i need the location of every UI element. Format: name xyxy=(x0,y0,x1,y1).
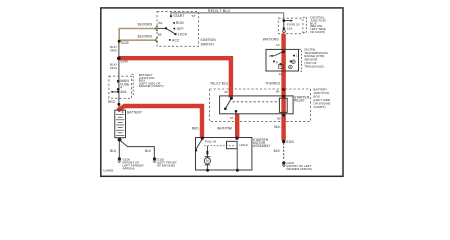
svg-text:S140: S140 xyxy=(120,59,128,63)
svg-text:85: 85 xyxy=(277,116,281,120)
svg-text:OF ENGINE): OF ENGINE) xyxy=(157,164,175,168)
svg-text:APRON): APRON) xyxy=(123,166,135,170)
svg-text:YEL/LT BLU: YEL/LT BLU xyxy=(210,82,229,86)
svg-text:BLK/ORG: BLK/ORG xyxy=(138,34,153,38)
svg-text:B6: B6 xyxy=(158,32,162,36)
svg-text:WHT/ORG: WHT/ORG xyxy=(263,37,279,41)
svg-text:114008: 114008 xyxy=(103,168,113,172)
svg-text:BLK: BLK xyxy=(274,149,281,153)
svg-text:D: D xyxy=(292,60,294,64)
svg-text:R: R xyxy=(276,60,278,64)
svg-text:ACC: ACC xyxy=(172,38,180,42)
svg-text:RED: RED xyxy=(192,127,200,131)
svg-text:LOCK: LOCK xyxy=(178,33,188,37)
svg-text:N: N xyxy=(280,64,282,68)
svg-text:S103: S103 xyxy=(286,140,294,144)
svg-text:HOLD: HOLD xyxy=(240,143,249,147)
svg-text:B4: B4 xyxy=(159,21,163,25)
svg-text:86: 86 xyxy=(276,90,280,94)
svg-text:BLK: BLK xyxy=(110,149,117,153)
svg-text:COMPT): COMPT) xyxy=(313,105,325,109)
svg-text:B: B xyxy=(290,65,292,69)
svg-text:ENGINE COMPT): ENGINE COMPT) xyxy=(139,84,164,88)
svg-text:40A: 40A xyxy=(120,90,127,94)
svg-text:RELAY: RELAY xyxy=(294,98,305,102)
svg-text:SWITCH: SWITCH xyxy=(201,42,215,46)
svg-text:TRANSAXLE): TRANSAXLE) xyxy=(304,64,323,68)
svg-text:10: 10 xyxy=(276,43,280,47)
svg-text:FENDER APRON): FENDER APRON) xyxy=(286,167,311,171)
svg-text:M: M xyxy=(206,159,209,163)
svg-text:L: L xyxy=(296,54,298,58)
svg-text:BLK/ORG: BLK/ORG xyxy=(138,23,153,27)
svg-text:THU/RED: THU/RED xyxy=(265,81,280,85)
svg-text:P: P xyxy=(269,54,271,58)
svg-text:ORG: ORG xyxy=(110,66,118,70)
svg-text:OF DASH): OF DASH) xyxy=(310,30,325,34)
svg-text:30: 30 xyxy=(224,90,228,94)
svg-text:RED/LT BLU: RED/LT BLU xyxy=(208,9,231,13)
svg-text:12: 12 xyxy=(279,72,283,76)
svg-text:START: START xyxy=(173,14,185,18)
svg-text:ST: ST xyxy=(192,14,196,18)
svg-text:4: 4 xyxy=(120,86,122,90)
svg-text:IGNITION: IGNITION xyxy=(201,38,217,42)
svg-text:RED: RED xyxy=(108,100,116,104)
svg-text:87: 87 xyxy=(230,116,234,120)
svg-text:WHT/PNK: WHT/PNK xyxy=(217,127,233,131)
svg-text:PULL-IN: PULL-IN xyxy=(205,140,217,144)
svg-text:BATTERY: BATTERY xyxy=(127,110,143,114)
svg-text:OFF: OFF xyxy=(177,27,184,31)
svg-text:BLK: BLK xyxy=(274,125,281,129)
svg-text:15A: 15A xyxy=(287,27,293,31)
svg-text:RUN: RUN xyxy=(176,21,184,25)
svg-text:ASSEMBLY: ASSEMBLY xyxy=(253,144,271,148)
svg-text:ORG: ORG xyxy=(110,49,118,53)
svg-text:S229: S229 xyxy=(121,41,129,45)
svg-text:BLK: BLK xyxy=(145,149,152,153)
